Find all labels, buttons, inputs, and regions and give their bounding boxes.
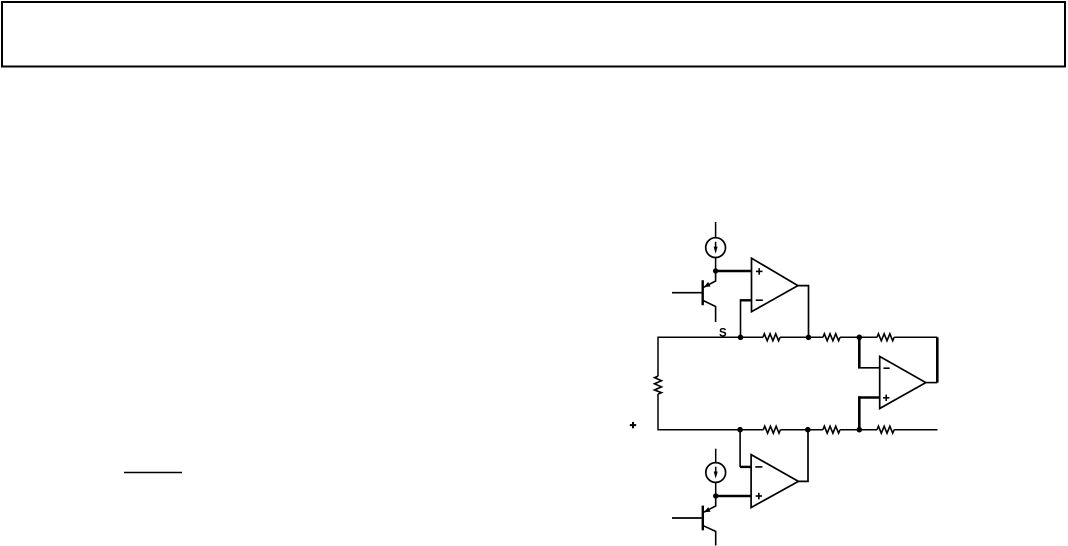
junction: Q2 emitter / A2 noninverting node — [713, 493, 718, 498]
wire: left branch vertical upper segment — [657, 337, 659, 377]
current source I1 — [706, 238, 726, 258]
wire: A3 output — [926, 382, 938, 384]
wire: left branch vertical lower segment — [657, 394, 659, 430]
junction: top sense node dot — [857, 335, 863, 341]
op-amp A1 — [752, 258, 798, 312]
wire: I2 to Q2 emitter node — [715, 483, 717, 496]
junction: A1 output node dot — [806, 335, 812, 341]
resistor R5 (bottom rail, second) — [823, 426, 840, 433]
wire: A2 output — [798, 430, 808, 482]
wire: emitter node to A1 + input (bold) — [716, 270, 752, 273]
transistor Q2 (PNP) — [672, 497, 716, 546]
wire: feedback vertical from A3 output to top rail (bold) — [936, 337, 939, 382]
transistor Q1 (PNP) — [672, 272, 716, 322]
resistor R6 (bottom rail, output side) — [877, 426, 894, 433]
input plus label — [630, 422, 636, 428]
wire: A1 inverting input stub (bold) — [741, 299, 752, 301]
resistor R3 (feedback resistor on top rail) — [877, 334, 894, 341]
wire: top rail segment 3 — [840, 336, 877, 338]
page border box — [2, 2, 1065, 67]
current source I2 — [706, 463, 726, 483]
wire: top sense node down to A3 inverting input (bold vertical) — [858, 337, 861, 368]
wire: I1 to Q1 emitter node — [715, 258, 717, 271]
op-amp A3 — [880, 356, 926, 408]
resistor RG (left vertical gain resistor) — [655, 376, 662, 394]
wire: A2 inverting input stub (bold) — [740, 466, 751, 468]
resistor R4 (bottom rail, first) — [763, 426, 780, 433]
wire: bottom rail segment from left corner — [658, 429, 763, 431]
junction: Q1 emitter / A1 noninverting node — [713, 268, 718, 273]
wire: A3 noninverting input down to bottom sense node (bold) — [858, 396, 861, 430]
fraction bar — [124, 472, 182, 474]
wire: I1 supply stub — [715, 222, 717, 237]
junction: node S dot — [738, 335, 744, 341]
wire: top rail segment 2 — [780, 336, 823, 338]
wire: A1 output — [798, 286, 809, 338]
wire: bottom rail right segment — [894, 429, 937, 431]
junction: A2 output node dot — [805, 427, 811, 433]
wire: A1 inverting input down to node S — [740, 299, 742, 337]
op-amp A2 — [751, 455, 798, 508]
junction: bottom rail node to A2 inverting dot — [737, 427, 743, 433]
wire: top rail segment to feedback corner — [894, 336, 937, 338]
resistor R1 (top rail, between node S and A1 output node) — [763, 334, 780, 341]
junction: bottom sense node dot — [857, 427, 863, 433]
wire: bottom rail down to A2 inverting input — [739, 430, 741, 467]
wire: A3 inverting input stub — [858, 367, 880, 369]
wire: emitter node to A2 + input (bold) — [716, 495, 751, 498]
wire: I2 supply stub — [715, 449, 717, 463]
wire: bottom rail segment 3 — [840, 429, 877, 431]
wire: A3 noninverting input stub (bold) — [859, 396, 879, 399]
wire: top rail segment from left corner to node S — [658, 336, 763, 338]
wire: bottom rail segment 2 — [780, 429, 823, 431]
svg-text:S: S — [719, 327, 727, 339]
resistor R2 (top rail, between A1 output node and sense node) — [823, 334, 840, 341]
